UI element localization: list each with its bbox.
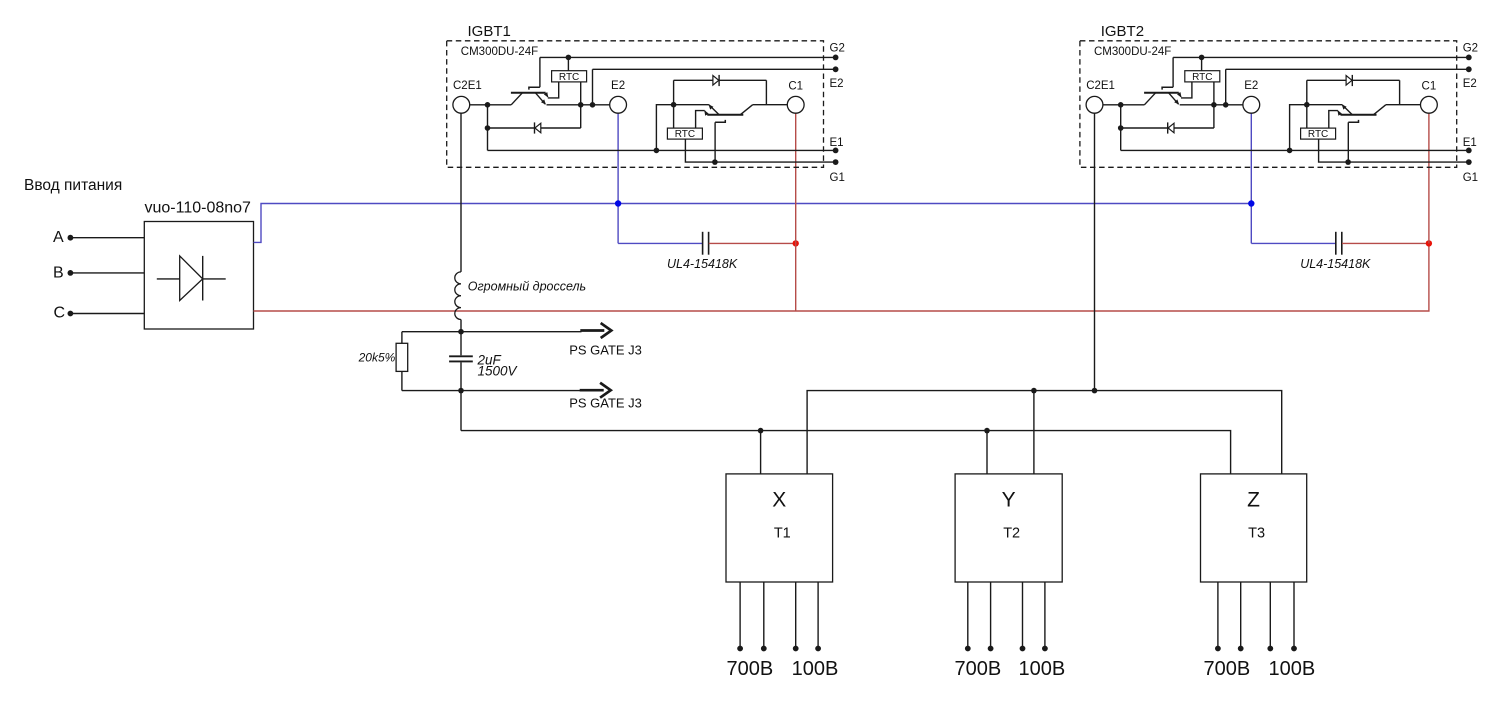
- svg-text:Ввод питания: Ввод питания: [24, 177, 122, 194]
- svg-text:700В: 700В: [955, 658, 1002, 680]
- junction gate-G1 (IGBT2): [1345, 159, 1351, 165]
- transformer T1 secondary lead 1: [739, 582, 741, 649]
- svg-text:C2E1: C2E1: [1086, 80, 1115, 92]
- svg-text:E1: E1: [1463, 137, 1477, 149]
- transformer T2 secondary terminal 4: [1042, 646, 1048, 652]
- transformer T1 secondary lead 3: [795, 582, 797, 649]
- wire RTC U1a to gate bus G2 (IGBT1): [567, 57, 569, 70]
- input terminal C dot: [68, 311, 74, 317]
- svg-text:100В: 100В: [1019, 658, 1066, 680]
- svg-text:B: B: [53, 264, 64, 281]
- junction collector node (IGBT2): [1118, 102, 1124, 108]
- svg-text:RTC: RTC: [559, 72, 579, 83]
- pin dot G2 (IGBT2): [1466, 55, 1472, 61]
- junction RTC-G2 (IGBT2): [1199, 55, 1205, 61]
- gate bus wire continues to pin G1 (IGBT2): [1348, 161, 1469, 163]
- junction RTC-emitter (IGBT2): [1211, 102, 1217, 108]
- wire RTC U1b to gate bus G1 (IGBT1): [685, 139, 715, 162]
- transformer T3 secondary lead 2: [1240, 582, 1242, 649]
- transformer T2 secondary terminal 1: [965, 646, 971, 652]
- terminal circle E2 (IGBT2): [1243, 96, 1260, 113]
- IGBT transistor Q2b (IGBT2 lower arm): [1329, 104, 1386, 162]
- wire bottom rail to arrow: [461, 390, 582, 392]
- svg-text:CM300DU-24F: CM300DU-24F: [1094, 46, 1171, 58]
- svg-text:UL4-15418K: UL4-15418K: [1300, 257, 1371, 271]
- junction rail2 to T1: [758, 428, 764, 434]
- svg-text:C2E1: C2E1: [453, 80, 482, 92]
- terminal circle C1 (IGBT2): [1421, 96, 1438, 113]
- svg-text:G1: G1: [1463, 172, 1478, 184]
- wire emitter node to Q2b (IGBT2): [1307, 104, 1342, 106]
- wire choke to filter node: [460, 320, 462, 332]
- junction emitter node lower arm (IGBT2): [1304, 102, 1310, 108]
- svg-text:C: C: [54, 305, 66, 322]
- wire phase C to rectifier: [70, 313, 144, 315]
- wire collector node to IGBT Q2a (IGBT2): [1121, 104, 1145, 106]
- svg-text:C1: C1: [788, 81, 803, 93]
- svg-text:100В: 100В: [1269, 658, 1316, 680]
- wire RTC U1a to emitter line (IGBT1): [580, 82, 582, 105]
- svg-text:T2: T2: [1003, 526, 1020, 542]
- transformer T3 secondary terminal 2: [1238, 646, 1244, 652]
- free-wheel diode D1a (IGBT1): [535, 122, 541, 133]
- free-wheel diode D2a branch wire (IGBT2): [1121, 105, 1214, 151]
- wire RTC U2a to emitter line (IGBT2): [1213, 82, 1215, 105]
- svg-text:T3: T3: [1248, 526, 1265, 542]
- wire phase A to rectifier: [70, 237, 144, 239]
- emitter bus wire to pin E1 (IGBT2): [1121, 149, 1469, 151]
- svg-text:Огромный дроссель: Огромный дроссель: [468, 280, 586, 294]
- transformer T2 secondary lead 1: [967, 582, 969, 649]
- gate bus wire to pin G2 (IGBT2): [1173, 56, 1469, 58]
- svg-text:RTC: RTC: [1192, 72, 1212, 83]
- wire emitter node to pin E2 line (IGBT1): [592, 69, 594, 105]
- transformer T3 secondary terminal 3: [1267, 646, 1273, 652]
- svg-text:X: X: [772, 489, 786, 512]
- free-wheel diode D2a (IGBT2): [1168, 122, 1174, 133]
- transformer T1 secondary terminal 3: [793, 646, 799, 652]
- pin dot G1 (IGBT2): [1466, 159, 1472, 165]
- junction IGBT2 C2E1 at gate rail: [1092, 388, 1098, 394]
- transformer T1 secondary lead 4: [817, 582, 819, 649]
- svg-text:IGBT1: IGBT1: [468, 23, 511, 40]
- wire snubber 2 right lead (red): [1342, 242, 1429, 244]
- svg-text:20k5%: 20k5%: [358, 351, 396, 365]
- input terminal A dot: [68, 235, 74, 241]
- junction blue bus at IGBT1 E2: [615, 200, 621, 206]
- free-wheel diode D1b branch wire (IGBT1): [674, 80, 767, 104]
- free-wheel diode D2b (IGBT2): [1346, 75, 1352, 86]
- wire RTC U2b to gate bus G1 (IGBT2): [1319, 139, 1349, 162]
- terminal circle E2 (IGBT1): [610, 96, 627, 113]
- svg-text:1500V: 1500V: [478, 364, 519, 379]
- svg-text:PS GATE J3: PS GATE J3: [569, 396, 642, 411]
- svg-text:G1: G1: [830, 172, 845, 184]
- wire RTC U2a to gate bus G2 (IGBT2): [1201, 57, 1203, 70]
- emitter bus wire to pin E2 (IGBT1): [593, 68, 836, 70]
- junction filter node bottom: [458, 388, 464, 394]
- IGBT transistor Q2a (IGBT2 upper arm): [1144, 57, 1192, 104]
- free-wheel diode D1a branch wire (IGBT1): [488, 105, 581, 151]
- pin dot E2 (IGBT1): [833, 66, 839, 72]
- transformer T3 secondary lead 3: [1269, 582, 1271, 649]
- pin dot E1 (IGBT2): [1466, 148, 1472, 154]
- free-wheel diode D2b branch wire (IGBT2): [1307, 80, 1400, 104]
- junction E1 bus (IGBT1): [654, 148, 660, 154]
- svg-text:IGBT2: IGBT2: [1101, 23, 1144, 40]
- wire IGBT2 C1 drop (red): [1428, 113, 1430, 243]
- junction red at IGBT1 C1: [793, 240, 799, 246]
- svg-text:E2: E2: [611, 80, 625, 92]
- wire transformer rail 2 (lower): [461, 431, 1231, 474]
- wire C2E1 to collector node (IGBT1): [470, 104, 488, 106]
- wire filter bottom rail: [402, 390, 461, 392]
- wire IGBT2 C2E1 drop to gate rail: [1094, 113, 1096, 390]
- junction RTC-G2 (IGBT1): [566, 55, 572, 61]
- IGBT1 terminal circle C2E1: [453, 96, 470, 113]
- transformer T2 secondary lead 3: [1022, 582, 1024, 649]
- transformer T3 body: [1201, 474, 1307, 582]
- junction blue bus at IGBT2 E2: [1248, 200, 1254, 206]
- wire snubber 1 right lead (red): [709, 242, 796, 244]
- gate bus wire continues to pin G1 (IGBT1): [715, 161, 836, 163]
- RTC box U1b (IGBT1): [667, 128, 702, 139]
- wire filter node to transformer rail 2: [460, 391, 462, 431]
- transformer T1 secondary terminal 1: [737, 646, 743, 652]
- RTC box U1a (IGBT1): [552, 71, 587, 82]
- svg-text:G2: G2: [830, 42, 845, 54]
- junction collector node (IGBT1): [485, 102, 491, 108]
- junction red at IGBT2 C1: [1426, 240, 1432, 246]
- junction emitter node lower arm (IGBT1): [671, 102, 677, 108]
- rectifier U1 body: [144, 222, 253, 330]
- svg-text:700В: 700В: [1204, 658, 1251, 680]
- transformer T2 secondary lead 4: [1044, 582, 1046, 649]
- transformer T3 secondary terminal 1: [1215, 646, 1221, 652]
- junction emitter-E2 (IGBT1): [590, 102, 596, 108]
- wire E1 node riser (IGBT1): [656, 105, 673, 151]
- junction E1 bus (IGBT2): [1287, 148, 1293, 154]
- input terminal B dot: [68, 270, 74, 276]
- wire collector node to IGBT Q1a (IGBT1): [488, 104, 512, 106]
- snubber capacitor UL4-15418K (IGBT2): [1336, 232, 1342, 255]
- wire emitter node to pin E2 line (IGBT2): [1225, 69, 1227, 105]
- arrow PS GATE J3 upper: [580, 329, 604, 332]
- capacitor C1f plates 2uF 1500V: [449, 356, 473, 361]
- transformer T2 secondary lead 2: [990, 582, 992, 649]
- junction gate-G1 (IGBT1): [712, 159, 718, 165]
- transformer T2 body: [955, 474, 1062, 582]
- wire IGBT1 E2 drop (blue): [617, 113, 619, 243]
- wire emitter node to Q1b (IGBT1): [674, 104, 709, 106]
- transformer T1 body: [726, 474, 833, 582]
- svg-text:G2: G2: [1463, 42, 1478, 54]
- transformer T3 secondary lead 1: [1217, 582, 1219, 649]
- RTC box U2a (IGBT2): [1185, 71, 1220, 82]
- transformer T1 secondary lead 2: [763, 582, 765, 649]
- rectifier U1 diode symbol: [157, 256, 226, 301]
- svg-text:E2: E2: [1463, 78, 1477, 90]
- wire transformer rail 1 (upper): [807, 391, 1282, 474]
- junction rail1 to T2: [1031, 388, 1037, 394]
- wire emitter of Q1a to E2 (IGBT1): [547, 104, 610, 106]
- wire phase B to rectifier: [70, 272, 144, 274]
- resistor R1 body 20k5%: [396, 343, 408, 371]
- IGBT1 dashed module outline box: [447, 41, 824, 168]
- wire E1 node riser (IGBT2): [1290, 105, 1307, 151]
- RTC box U2b (IGBT2): [1301, 128, 1336, 139]
- transformer T1 secondary terminal 2: [761, 646, 767, 652]
- wire emitter node to RTC U1b (IGBT1): [673, 105, 675, 128]
- wire IGBT1 C2E1 to choke: [460, 113, 462, 272]
- svg-text:Z: Z: [1247, 489, 1260, 512]
- arrow PS GATE J3 lower: [580, 389, 604, 392]
- transformer T1 secondary terminal 4: [815, 646, 821, 652]
- svg-text:vuo-110-08no7: vuo-110-08no7: [145, 200, 252, 217]
- pin dot G1 (IGBT1): [833, 159, 839, 165]
- wire rail2 drop to T2: [986, 431, 988, 474]
- wire DC positive bus (blue) from rectifier: [254, 204, 1252, 243]
- wire IGBT1 C1 drop (red): [795, 113, 797, 311]
- transformer T3 secondary lead 4: [1293, 582, 1295, 649]
- pin dot G2 (IGBT1): [833, 55, 839, 61]
- svg-text:PS GATE J3: PS GATE J3: [569, 343, 642, 358]
- svg-text:Y: Y: [1002, 489, 1016, 512]
- emitter bus wire to pin E1 (IGBT1): [488, 149, 836, 151]
- svg-text:E2: E2: [1244, 80, 1258, 92]
- wire emitter node to RTC U2b (IGBT2): [1306, 105, 1308, 128]
- svg-text:A: A: [53, 229, 64, 246]
- svg-text:E1: E1: [830, 137, 844, 149]
- svg-text:T1: T1: [774, 526, 791, 542]
- wire snubber 1 left lead (blue): [618, 242, 702, 244]
- wire collector Q1b to C1 (IGBT1): [753, 104, 788, 106]
- wire rail1 drop to T2: [1033, 391, 1035, 474]
- svg-text:RTC: RTC: [675, 129, 695, 140]
- gate bus wire to pin G2 (IGBT1): [540, 56, 836, 58]
- wire DC negative bus (red) from rectifier: [254, 243, 1429, 311]
- pin dot E1 (IGBT1): [833, 148, 839, 154]
- terminal circle C1 (IGBT1): [787, 96, 804, 113]
- svg-text:E2: E2: [830, 78, 844, 90]
- IGBT2 terminal circle C2E1: [1086, 96, 1103, 113]
- transformer T2 secondary terminal 3: [1020, 646, 1026, 652]
- snubber capacitor UL4-15418K (IGBT1): [703, 232, 709, 255]
- wire snubber 2 left lead (blue): [1251, 242, 1335, 244]
- free-wheel diode D1b (IGBT1): [713, 75, 719, 86]
- resistor R1 leads: [401, 332, 403, 391]
- svg-text:700В: 700В: [727, 658, 774, 680]
- svg-text:CM300DU-24F: CM300DU-24F: [461, 46, 538, 58]
- svg-text:UL4-15418K: UL4-15418K: [667, 257, 738, 271]
- wire rail2 drop to T1: [760, 431, 762, 474]
- svg-text:RTC: RTC: [1308, 129, 1328, 140]
- wire collector Q2b to C1 (IGBT2): [1386, 104, 1421, 106]
- wire filter top rail: [402, 331, 582, 333]
- svg-text:100В: 100В: [792, 658, 839, 680]
- junction RTC-emitter (IGBT1): [578, 102, 584, 108]
- junction diode branch (IGBT1): [485, 125, 491, 131]
- wire emitter of Q2a to E2 (IGBT2): [1180, 104, 1243, 106]
- IGBT transistor Q1b (IGBT1 lower arm): [696, 104, 753, 162]
- IGBT2 dashed module outline box: [1080, 41, 1457, 168]
- junction filter node top: [458, 329, 464, 335]
- IGBT transistor Q1a (IGBT1 upper arm): [511, 57, 559, 104]
- junction diode branch (IGBT2): [1118, 125, 1124, 131]
- junction emitter-E2 (IGBT2): [1223, 102, 1229, 108]
- pin dot E2 (IGBT2): [1466, 66, 1472, 72]
- capacitor C1f leads: [460, 332, 462, 391]
- wire IGBT2 E2 drop (blue): [1250, 113, 1252, 243]
- inductor L1 Огромный дроссель (choke): [455, 272, 461, 320]
- emitter bus wire to pin E2 (IGBT2): [1226, 68, 1469, 70]
- junction rail2 to T2: [984, 428, 990, 434]
- transformer T2 secondary terminal 2: [988, 646, 994, 652]
- wire C2E1 to collector node (IGBT2): [1103, 104, 1121, 106]
- transformer T3 secondary terminal 4: [1291, 646, 1297, 652]
- svg-text:C1: C1: [1422, 81, 1437, 93]
